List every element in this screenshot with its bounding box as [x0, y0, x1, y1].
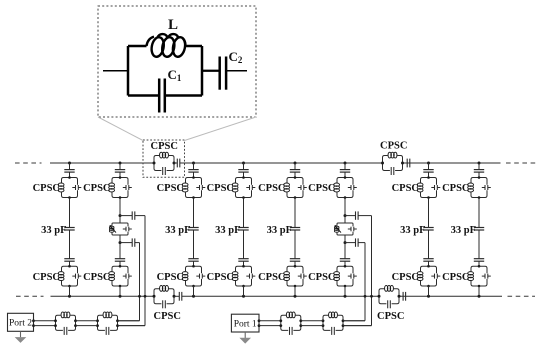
- svg-text:CPSC: CPSC: [377, 311, 404, 322]
- svg-text:CPSC: CPSC: [207, 183, 234, 194]
- svg-text:CPSC: CPSC: [442, 183, 469, 194]
- svg-text:Port 1: Port 1: [234, 320, 257, 330]
- svg-text:Port 2: Port 2: [9, 319, 32, 329]
- svg-text:33 pF: 33 pF: [41, 225, 66, 236]
- svg-text:CPSC: CPSC: [83, 272, 110, 283]
- svg-text:CPSC: CPSC: [308, 183, 335, 194]
- svg-text:CPSC: CPSC: [442, 272, 469, 283]
- svg-text:CPSC: CPSC: [151, 141, 178, 152]
- svg-text:CPSC: CPSC: [154, 311, 181, 322]
- svg-text:CPSC: CPSC: [33, 272, 60, 283]
- svg-text:33 pF: 33 pF: [451, 225, 476, 236]
- svg-text:L: L: [168, 17, 178, 33]
- svg-text:CPSC: CPSC: [157, 183, 184, 194]
- svg-text:33 pF: 33 pF: [400, 225, 425, 236]
- svg-text:CPSC: CPSC: [380, 141, 407, 152]
- svg-text:CPSC: CPSC: [392, 183, 419, 194]
- svg-text:CPSC: CPSC: [308, 272, 335, 283]
- svg-text:CPSC: CPSC: [258, 272, 285, 283]
- svg-text:CPSC: CPSC: [157, 272, 184, 283]
- svg-text:CPSC: CPSC: [83, 183, 110, 194]
- svg-text:CPSC: CPSC: [207, 272, 234, 283]
- svg-text:CPSC: CPSC: [33, 183, 60, 194]
- svg-text:CPSC: CPSC: [392, 272, 419, 283]
- svg-text:33 pF: 33 pF: [267, 225, 292, 236]
- svg-text:33 pF: 33 pF: [165, 225, 190, 236]
- svg-text:CPSC: CPSC: [258, 183, 285, 194]
- svg-text:33 pF: 33 pF: [215, 225, 240, 236]
